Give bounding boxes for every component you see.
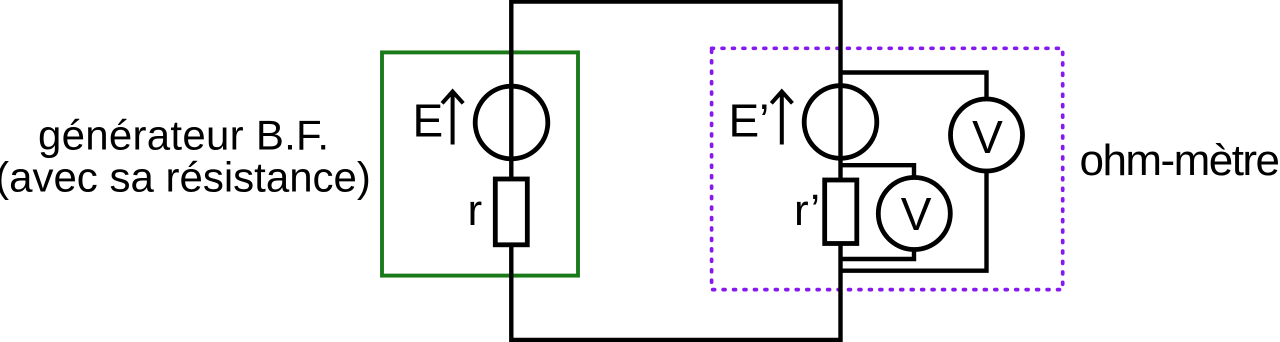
svg-text:E’: E’ (729, 95, 770, 147)
source E (circle) (475, 86, 548, 159)
source E' (circle) (804, 86, 877, 159)
svg-text:ohm-mètre: ohm-mètre (1080, 136, 1280, 185)
wire: outer loop (left branch, top, right branch, bottom) (511, 0, 840, 342)
arrow for E' (771, 92, 792, 145)
ohm-meter box (purple dotted frame) (712, 48, 1063, 289)
wire: voltmeter V2 top branch (node above E') (841, 73, 987, 101)
resistor r (495, 179, 527, 245)
svg-text:générateur B.F.: générateur B.F. (38, 111, 329, 158)
svg-text:r’: r’ (794, 186, 820, 235)
wire: voltmeter V1 bottom branch (node below r') (841, 248, 915, 259)
arrow for E (442, 92, 463, 145)
wire: voltmeter V2 bottom branch (node below r') (841, 170, 987, 271)
wire: voltmeter V1 top branch (node between E' and r') (841, 165, 915, 179)
resistor r' (825, 180, 857, 244)
voltmeter V1 (across r') (878, 178, 950, 250)
svg-text:V: V (972, 111, 1003, 163)
svg-text:E: E (413, 95, 444, 147)
svg-text:V: V (901, 188, 932, 240)
svg-text:(avec sa résistance): (avec sa résistance) (0, 154, 371, 201)
generator box (green frame) (382, 52, 578, 275)
svg-text:r: r (468, 186, 483, 235)
voltmeter V2 (across E' and r') (951, 99, 1023, 171)
